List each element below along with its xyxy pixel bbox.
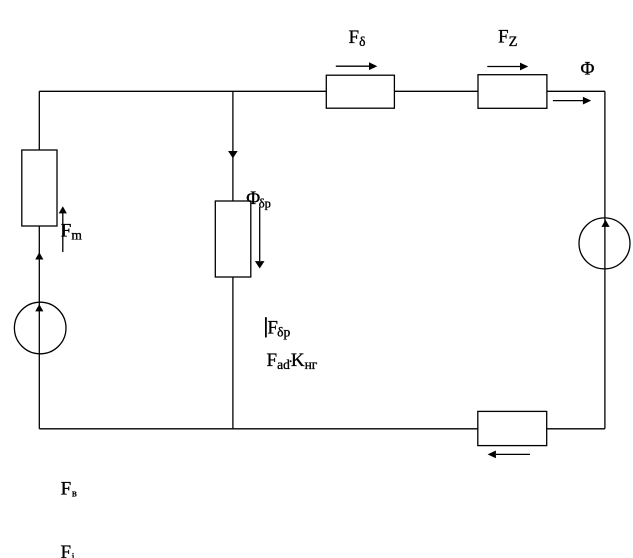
resistor top-left Rdelta bbox=[326, 75, 394, 108]
Fm arrow bbox=[62, 213, 64, 252]
svg-text:Fв: Fв bbox=[61, 479, 77, 500]
arrowhead down on middle wire bbox=[228, 151, 238, 158]
wire right bbox=[604, 91, 606, 429]
arrow right of Fz box (flux out) bbox=[553, 100, 583, 102]
text cursor bar bbox=[265, 317, 267, 337]
arrow above F-delta box bbox=[336, 65, 369, 67]
resistor middle (leakage) bbox=[215, 201, 251, 277]
wire left bbox=[38, 91, 40, 429]
wire top bbox=[39, 90, 605, 92]
arrowhead up inside right circle bbox=[601, 220, 609, 227]
arrow below bottom box pointing left bbox=[496, 453, 530, 455]
wire middle branch bbox=[232, 91, 234, 429]
svg-text:Φ: Φ bbox=[581, 59, 595, 80]
svg-text:Φδp: Φδp bbox=[246, 188, 271, 211]
svg-text:Fδ: Fδ bbox=[349, 27, 366, 49]
resistor top-right Rz bbox=[478, 75, 547, 109]
svg-text:Fm: Fm bbox=[61, 221, 83, 243]
arrowhead up on left wire above circle bbox=[35, 252, 43, 259]
source circle left bbox=[14, 302, 66, 354]
svg-text:Fδp: Fδp bbox=[267, 317, 290, 339]
arrowhead up inside left circle bbox=[35, 304, 43, 311]
source circle right bbox=[579, 218, 630, 269]
Phi-delta-p arrow bbox=[259, 207, 261, 261]
arrow above Fz box bbox=[487, 66, 520, 68]
wire bottom bbox=[39, 428, 605, 430]
resistor bottom bbox=[478, 411, 547, 445]
resistor left (magnet reluctance) bbox=[22, 150, 57, 226]
svg-text:Fi: Fi bbox=[61, 542, 75, 558]
svg-text:Fad·Kнг: Fad·Kнг bbox=[267, 350, 318, 372]
svg-text:FZ: FZ bbox=[498, 27, 518, 50]
